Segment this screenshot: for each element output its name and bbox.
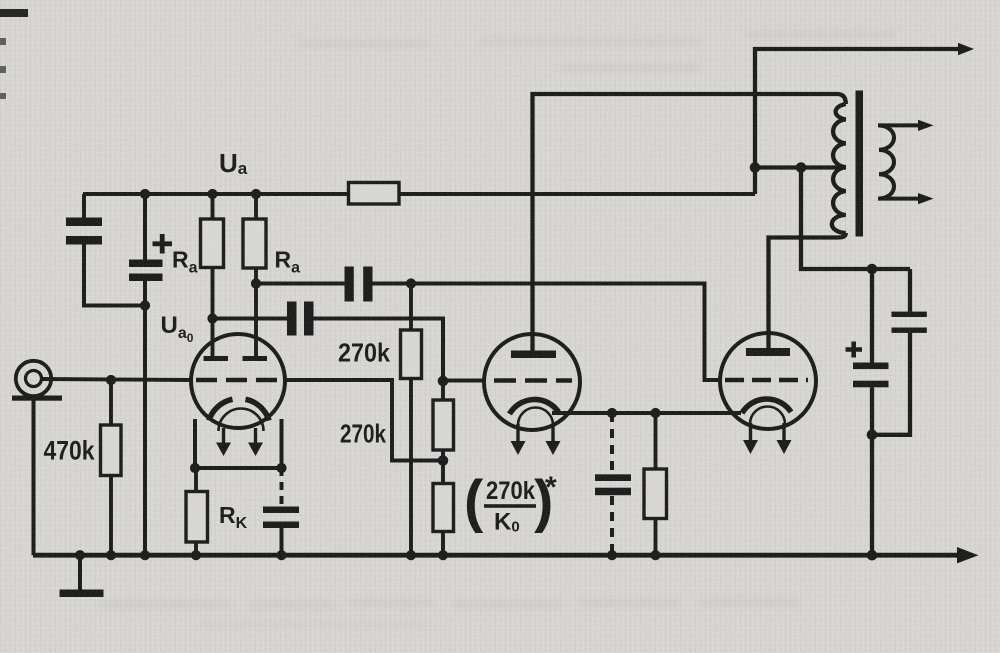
capacitor C8 V2 cathode bypass (dashed leads) xyxy=(595,413,631,555)
wire: RK chain xyxy=(194,468,198,555)
wire: B+ filter branch from center tap xyxy=(801,168,910,270)
wire: 270k lower chain (x=443) xyxy=(441,381,445,555)
resistor V2 cathode xyxy=(644,469,667,519)
wire: Ra2 / V1 plate2 chain xyxy=(254,194,258,356)
resistor RK xyxy=(186,492,208,543)
capacitor C7 (right) xyxy=(892,312,927,333)
arrow: ground rail end xyxy=(957,547,979,563)
wire: 470k chain xyxy=(109,380,113,555)
ground symbol xyxy=(60,555,104,597)
wire: C2 electrolytic chain (x=145) xyxy=(143,194,147,555)
wire: 270k upper chain (x=411) xyxy=(409,284,413,556)
wire: cathode resistor chain (x=655.5) xyxy=(654,413,658,555)
capacitor C1 (left, to ground return) xyxy=(66,194,145,306)
wire: V2 grid lead xyxy=(443,379,484,383)
tube V3 xyxy=(720,333,816,454)
resistor Ra2 xyxy=(243,219,266,268)
capacitor C2 electrolytic (+) xyxy=(129,234,172,281)
resistor series (unlabeled, in Ua bus) xyxy=(349,183,400,205)
wire: ground rail xyxy=(33,553,960,558)
resistor 270k (upper) xyxy=(401,330,422,379)
transformer T1 core xyxy=(856,91,864,237)
wire: coupling wire2 (Ra1 bottom to V2 grid branch) xyxy=(213,319,444,382)
wire: transformer center tap xyxy=(755,165,846,169)
resistor (270k/K0)* xyxy=(433,484,454,532)
wire: input line to V1 grid xyxy=(40,379,191,380)
wire: right capacitor C7 chain xyxy=(872,269,910,435)
wire: V1 cathode box xyxy=(195,419,282,468)
resistor 470k xyxy=(101,425,122,476)
wire: Ra1 / V1 plate1 chain xyxy=(211,194,215,356)
connector J1: input jack xyxy=(12,361,62,555)
arrow: top output xyxy=(958,43,974,55)
tube V1 (twin triode) xyxy=(191,334,285,456)
capacitor C6 electrolytic (+, right) xyxy=(846,342,889,388)
transformer T1 primary winding xyxy=(832,104,846,233)
capacitor C5 V1 cathode bypass (dashed leads) xyxy=(263,468,299,555)
wire: Ua riser with output arrow (top) xyxy=(755,49,959,194)
wire: Ua supply bus (y=194) xyxy=(83,192,755,196)
wire: V2 plate riser to transformer primary top xyxy=(533,94,846,352)
resistor 270k (lower) xyxy=(433,400,454,450)
label (270k/K0)* xyxy=(464,469,557,536)
capacitor C3 coupling (wire1) xyxy=(345,267,373,302)
wire: right electrolytic C6 chain xyxy=(870,269,874,555)
wire: transformer primary bottom to V3 plate xyxy=(769,233,846,350)
resistor Ra1 xyxy=(201,219,224,268)
transformer T1 secondary winding with output arrows xyxy=(878,120,934,204)
wire: V1 grid exit to feedback divider xyxy=(285,380,443,461)
wire: coupling wire1 (V1 plate2 to V3 grid) xyxy=(256,284,721,381)
tube V2 xyxy=(484,334,580,455)
capacitor C4 coupling (wire2) xyxy=(287,302,314,336)
wire: V2/V3 cathode tie line xyxy=(552,411,741,415)
